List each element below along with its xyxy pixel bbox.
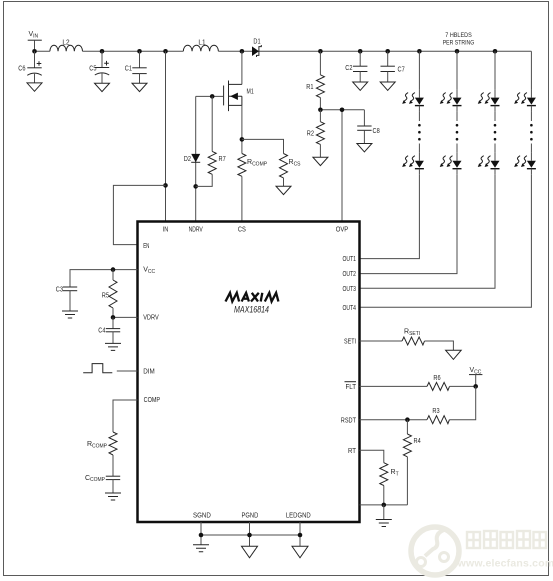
ground RT bbox=[376, 520, 392, 527]
wire string 1 top bbox=[418, 51, 420, 89]
junction C5 bbox=[100, 49, 105, 54]
wire LEDGND bbox=[299, 522, 301, 546]
svg-text:OUT1: OUT1 bbox=[343, 256, 357, 263]
junction VIN bbox=[32, 49, 37, 54]
svg-text:www.elecfans.com: www.elecfans.com bbox=[457, 558, 553, 570]
capacitor C1 bbox=[125, 51, 147, 83]
wire RSETI to ground bbox=[425, 341, 454, 350]
LED string 4 bottom bbox=[514, 153, 536, 175]
junction M1 drain bbox=[240, 49, 245, 54]
node VIN bbox=[28, 31, 42, 40]
junction RT ground bbox=[382, 503, 387, 508]
capacitor C8 bbox=[357, 110, 380, 144]
pin FLT (active low) bbox=[345, 382, 357, 391]
LED string 2 top bbox=[440, 90, 462, 112]
capacitor C4 bbox=[98, 317, 120, 343]
wire string 1 to OUT1 bbox=[360, 175, 420, 259]
capacitor C7 bbox=[381, 51, 405, 82]
ground C5 bbox=[95, 83, 110, 91]
svg-text:M1: M1 bbox=[247, 89, 254, 96]
resistor RCOMP (CS) bbox=[238, 154, 268, 222]
LED string 3 bottom bbox=[478, 153, 500, 175]
ground C7 bbox=[380, 82, 395, 90]
wire string 2 mid bbox=[456, 112, 458, 121]
junction C2 bbox=[358, 49, 363, 54]
ground C8 bbox=[357, 144, 372, 152]
resistor R2 bbox=[307, 110, 325, 157]
ground C3 bbox=[62, 311, 78, 318]
wire COMP pin bbox=[113, 400, 138, 432]
wire string 2 to OUT2 bbox=[360, 175, 458, 274]
string 4 ellipsis bbox=[530, 124, 533, 141]
junction string2 bbox=[455, 49, 460, 54]
svg-text:C5: C5 bbox=[89, 66, 96, 73]
junction SGND bbox=[199, 533, 204, 538]
junction IN line bbox=[163, 49, 168, 54]
junction R1 bbox=[318, 49, 323, 54]
svg-text:L1: L1 bbox=[198, 40, 205, 47]
svg-text:C4: C4 bbox=[98, 327, 105, 334]
svg-text:VDRV: VDRV bbox=[143, 315, 159, 322]
ground C1 bbox=[132, 83, 147, 91]
svg-text:RT: RT bbox=[348, 448, 357, 455]
junction NDRV bottom bbox=[193, 184, 198, 189]
wire VIN stub bbox=[34, 40, 36, 51]
wire string 3 top bbox=[494, 51, 496, 89]
wire VDRV pin bbox=[113, 316, 138, 318]
svg-text:R1: R1 bbox=[306, 84, 313, 91]
node VCC terminal bbox=[469, 367, 482, 386]
svg-text:C7: C7 bbox=[398, 67, 405, 74]
label 7 HBLEDS PER STRING bbox=[443, 32, 475, 47]
svg-text:R2: R2 bbox=[307, 131, 314, 138]
ground CCOMP bbox=[105, 493, 121, 500]
resistor R5 bbox=[102, 270, 117, 318]
svg-text:C3: C3 bbox=[56, 287, 63, 294]
wire top rail bbox=[35, 50, 532, 52]
resistor R6 bbox=[427, 375, 450, 391]
svg-text:PGND: PGND bbox=[242, 513, 259, 520]
svg-text:R7: R7 bbox=[219, 156, 226, 163]
junction VDRV/C4 bbox=[111, 315, 116, 320]
svg-text:IN: IN bbox=[163, 227, 169, 234]
svg-text:C1: C1 bbox=[125, 66, 132, 73]
resistor RCOMP bbox=[87, 432, 117, 476]
junction string1 bbox=[417, 49, 422, 54]
capacitor CCOMP bbox=[85, 475, 120, 493]
svg-text:PER STRING: PER STRING bbox=[443, 40, 475, 47]
ground R2 bbox=[313, 157, 328, 165]
svg-text:L2: L2 bbox=[62, 40, 69, 47]
LED string 2 bottom bbox=[440, 153, 462, 175]
inductor L2 bbox=[50, 40, 83, 52]
svg-text:DIM: DIM bbox=[143, 369, 155, 376]
wire IN line bbox=[165, 51, 167, 221]
IC U1 MAX16814 bbox=[138, 222, 360, 523]
svg-text:D2: D2 bbox=[184, 156, 191, 163]
wire string 4 mid bbox=[530, 112, 532, 121]
junction R1R2 bbox=[318, 108, 323, 113]
junction LEDGND bbox=[298, 533, 303, 538]
ground C4 bbox=[105, 343, 121, 350]
wire RT pin bbox=[360, 450, 384, 462]
wire to ground bbox=[383, 505, 385, 520]
resistor R7 bbox=[196, 96, 226, 186]
capacitor C2 bbox=[345, 51, 367, 82]
wire string 1 mid2 bbox=[418, 144, 420, 153]
svg-text:OUT4: OUT4 bbox=[343, 305, 357, 312]
svg-text:D1: D1 bbox=[253, 38, 260, 45]
watermark text 1 bbox=[467, 531, 546, 548]
wire DIM pin bbox=[117, 370, 138, 372]
capacitor C5 bbox=[89, 51, 109, 83]
LED string 1 bottom bbox=[402, 153, 424, 175]
svg-text:NDRV: NDRV bbox=[189, 227, 203, 234]
wire OVP node bbox=[320, 110, 364, 222]
svg-text:R3: R3 bbox=[432, 408, 439, 415]
wire string 4 to OUT4 bbox=[360, 175, 532, 308]
ground RCS bbox=[276, 186, 291, 194]
svg-text:FLT: FLT bbox=[346, 384, 357, 391]
LED string 1 top bbox=[402, 90, 424, 112]
junction C1 bbox=[137, 49, 142, 54]
svg-text:R5: R5 bbox=[102, 293, 109, 300]
wire EN bbox=[113, 185, 165, 244]
wire VCC pin bbox=[70, 270, 138, 287]
wire FLT bbox=[360, 385, 428, 387]
diode D1 schottky bbox=[252, 38, 261, 57]
resistor R1 bbox=[306, 51, 324, 110]
junction VCC/R6 bbox=[473, 384, 478, 389]
resistor RCS bbox=[242, 139, 301, 186]
wire string 3 mid2 bbox=[494, 144, 496, 153]
inductor L1 bbox=[183, 40, 218, 52]
svg-text:OVP: OVP bbox=[336, 227, 349, 234]
transistor M1 bbox=[224, 51, 254, 111]
junction OVP bbox=[340, 108, 345, 113]
ground PGND bbox=[242, 546, 258, 558]
ground LEDGND bbox=[292, 546, 308, 558]
ground C6 bbox=[27, 83, 42, 91]
diode D2 bbox=[184, 154, 200, 163]
wire RSDT bbox=[360, 419, 428, 421]
svg-text:SGND: SGND bbox=[193, 513, 211, 520]
svg-text:C2: C2 bbox=[345, 65, 352, 72]
string 2 ellipsis bbox=[456, 124, 459, 141]
junction gate R7 bbox=[210, 94, 215, 99]
wire RT ground bus bbox=[360, 504, 408, 506]
capacitor C3 bbox=[56, 287, 77, 312]
ground SGND bbox=[193, 545, 209, 552]
ground C2 bbox=[353, 82, 368, 90]
wire SETI bbox=[360, 340, 403, 342]
svg-text:MAX16814: MAX16814 bbox=[234, 305, 269, 316]
svg-text:OUT2: OUT2 bbox=[343, 271, 357, 278]
svg-text:7 HBLEDS: 7 HBLEDS bbox=[445, 32, 472, 39]
wire string 4 mid2 bbox=[530, 144, 532, 153]
LED string 4 top bbox=[514, 90, 536, 112]
wire string 1 mid bbox=[418, 112, 420, 121]
LED string 3 top bbox=[478, 90, 500, 112]
svg-text:EN: EN bbox=[143, 243, 149, 250]
wire PGND bbox=[249, 522, 251, 546]
junction C7 bbox=[385, 49, 390, 54]
svg-text:OUT3: OUT3 bbox=[343, 286, 357, 293]
svg-text:R4: R4 bbox=[414, 438, 421, 445]
resistor RSETI bbox=[402, 329, 425, 346]
string 1 ellipsis bbox=[418, 124, 421, 141]
wire gate bbox=[196, 96, 224, 221]
wire string 3 to OUT3 bbox=[360, 175, 496, 289]
junction EN tap bbox=[163, 183, 168, 188]
svg-text:LEDGND: LEDGND bbox=[286, 513, 311, 520]
wire string 2 top bbox=[456, 51, 458, 89]
wire string 2 mid2 bbox=[456, 144, 458, 153]
svg-text:C8: C8 bbox=[373, 128, 380, 135]
wire VCC down to R3 bbox=[449, 386, 475, 419]
wire R6 to VCC bbox=[450, 385, 476, 387]
resistor RT bbox=[380, 463, 399, 505]
wire string 4 top bbox=[530, 51, 532, 89]
ground RSETI bbox=[446, 350, 462, 359]
svg-text:CS: CS bbox=[238, 227, 246, 234]
wire ground bus bbox=[201, 534, 300, 536]
DIM waveform symbol bbox=[83, 364, 112, 373]
resistor R3 bbox=[427, 408, 449, 424]
junction string3 bbox=[493, 49, 498, 54]
junction PGND bbox=[247, 533, 252, 538]
string 3 ellipsis bbox=[494, 124, 497, 141]
IC logo MAXIM bbox=[226, 293, 279, 302]
svg-text:RSDT: RSDT bbox=[341, 417, 357, 424]
wire string 3 mid bbox=[494, 112, 496, 121]
wire M1 source to CS bbox=[241, 105, 243, 153]
watermark logo elecfans bbox=[411, 527, 459, 575]
junction source/RCS bbox=[240, 137, 245, 142]
resistor R4 bbox=[403, 420, 420, 505]
capacitor C6 bbox=[18, 51, 41, 83]
junction VCC/R5 bbox=[111, 267, 116, 272]
junction RSDT/R4 bbox=[405, 417, 410, 422]
svg-text:COMP: COMP bbox=[144, 397, 161, 404]
svg-text:C6: C6 bbox=[18, 66, 25, 73]
wire SGND bbox=[200, 522, 202, 545]
svg-text:SETI: SETI bbox=[344, 339, 356, 346]
svg-text:R6: R6 bbox=[433, 375, 440, 382]
